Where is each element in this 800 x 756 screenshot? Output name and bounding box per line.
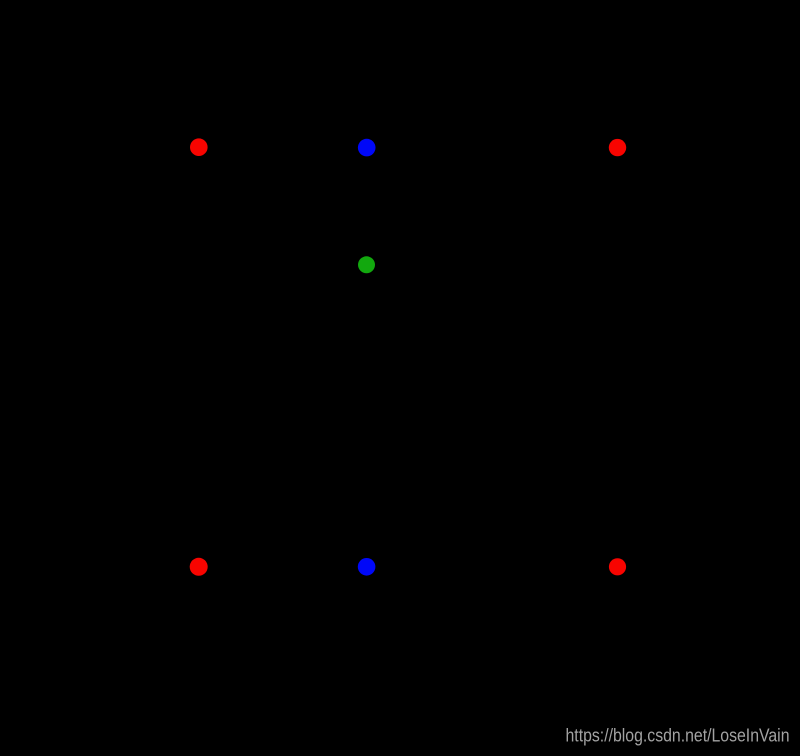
svg-text:https://blog.csdn.net/LoseInVa: https://blog.csdn.net/LoseInVain [566,725,790,746]
node B (blue, top-middle) [358,139,376,157]
node F (blue, bottom-middle) [358,558,376,576]
node A (red, top-left) [190,138,208,156]
node E (red, bottom-left) [190,558,208,576]
node C (red, top-right) [609,139,626,156]
node G (red, bottom-right) [609,558,626,575]
node D (green, middle) [358,256,375,273]
